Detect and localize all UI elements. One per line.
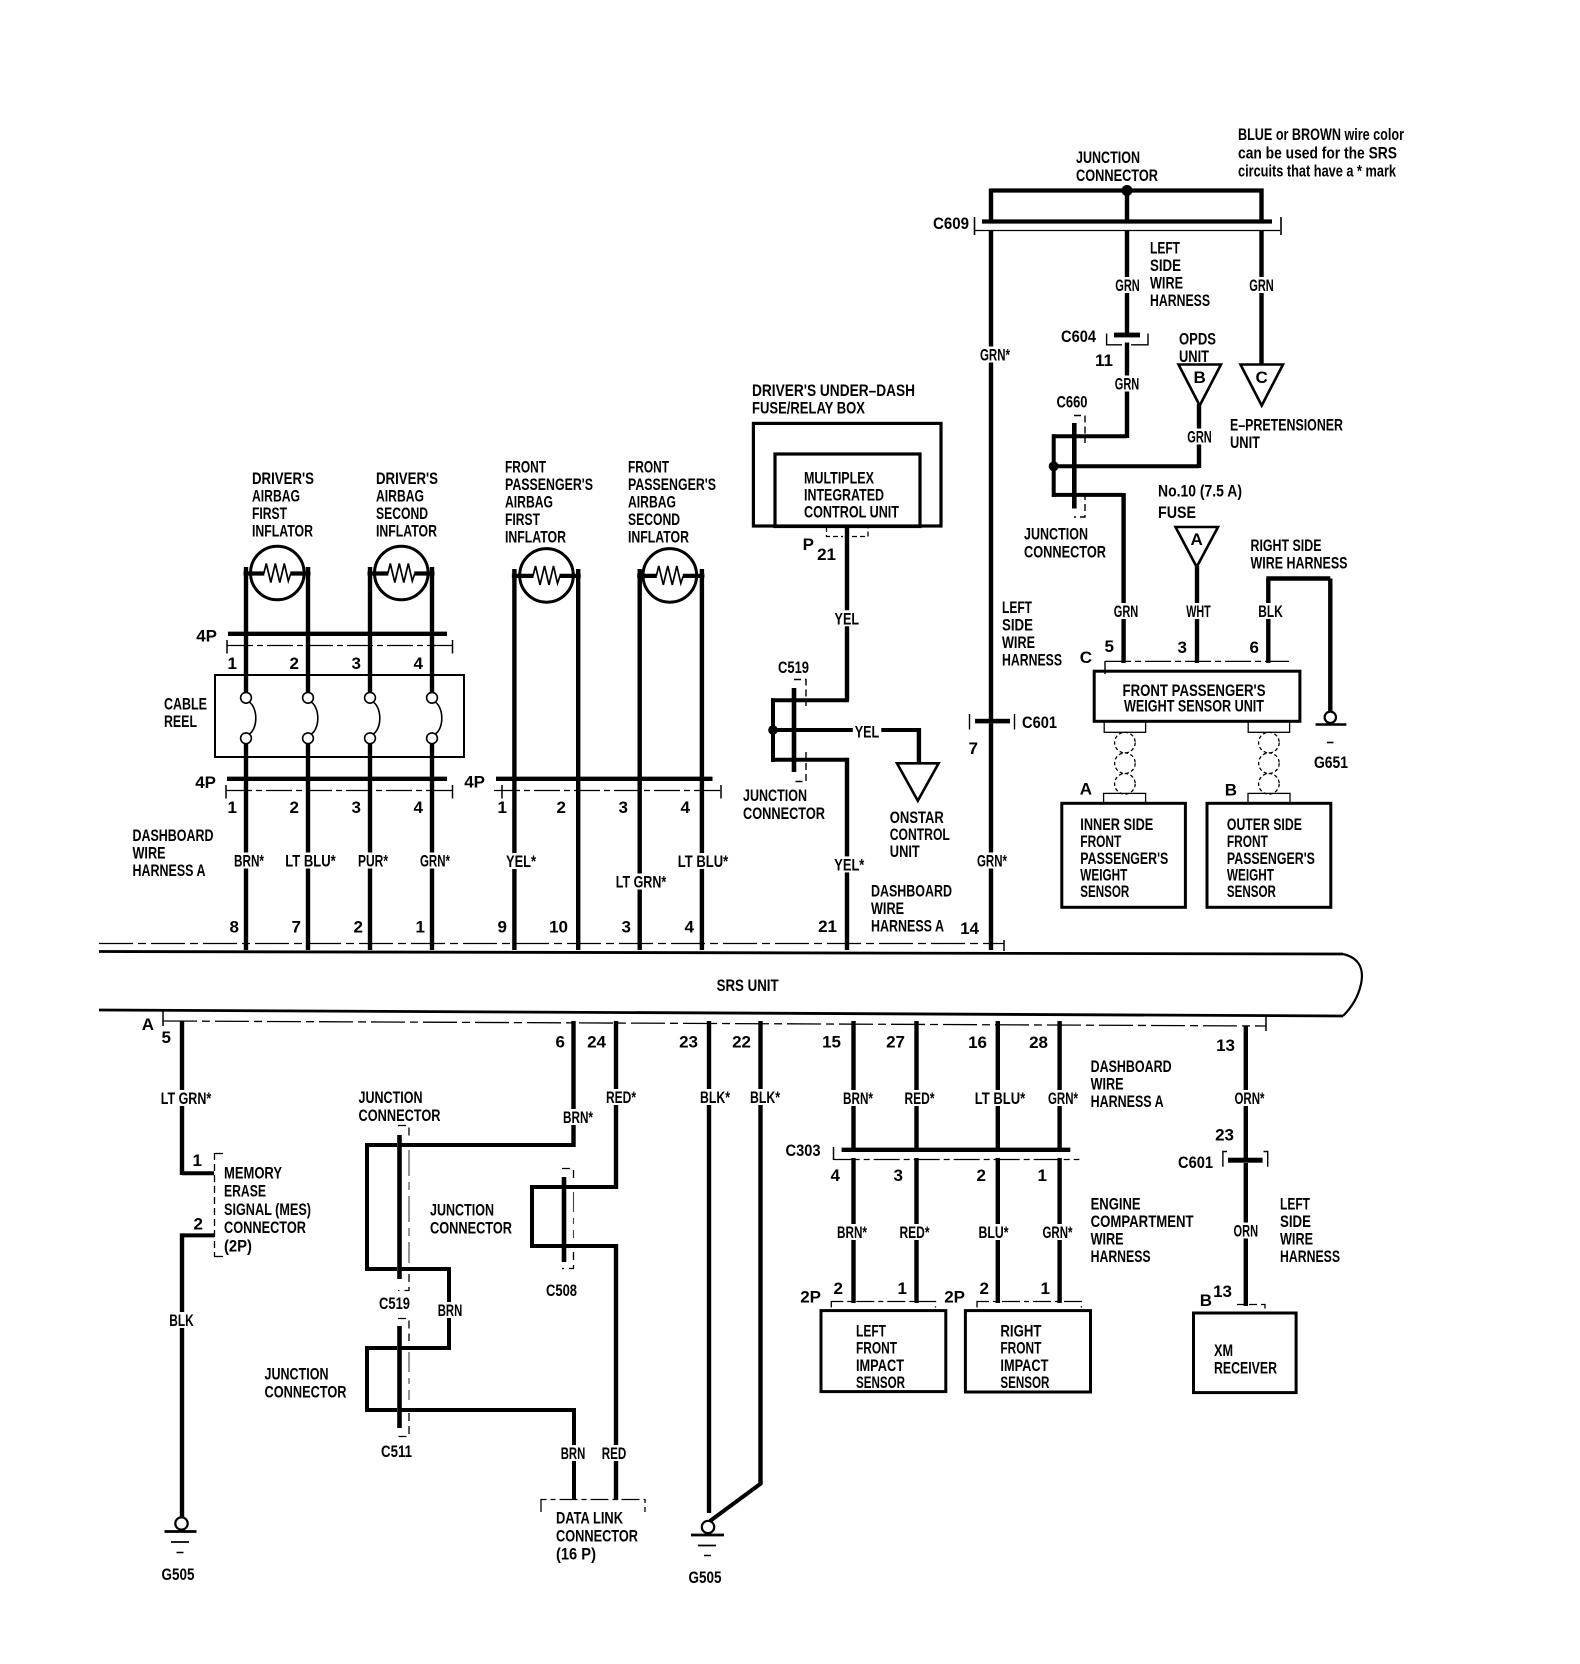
- svg-text:SIDE: SIDE: [1280, 1212, 1311, 1231]
- svg-text:10: 10: [549, 918, 568, 937]
- svg-text:2P: 2P: [800, 1288, 821, 1307]
- svg-text:CONNECTOR: CONNECTOR: [430, 1219, 512, 1238]
- wire LT GRN* from SRS pin 5: [180, 1021, 184, 1175]
- cable reel coil at x=308: [306, 636, 310, 693]
- inflator left lead stub: [512, 574, 534, 578]
- svg-text:P: P: [803, 535, 814, 554]
- wire inflator2 right leg: [430, 567, 434, 636]
- svg-text:CABLE: CABLE: [164, 695, 207, 714]
- svg-text:2: 2: [980, 1279, 989, 1298]
- svg-text:3: 3: [622, 918, 631, 937]
- svg-text:C604: C604: [1061, 327, 1096, 346]
- svg-text:can be used for the SRS: can be used for the SRS: [1238, 144, 1397, 163]
- svg-text:3: 3: [352, 798, 361, 817]
- svg-text:C660: C660: [1057, 393, 1088, 412]
- label YEL*: [832, 856, 866, 872]
- E-pretensioner unit triangle C: [1241, 365, 1284, 406]
- svg-text:24: 24: [587, 1033, 606, 1052]
- svg-text:XM: XM: [1214, 1341, 1233, 1360]
- svg-text:GRN*: GRN*: [1048, 1089, 1078, 1108]
- wire inflator2 left leg: [368, 567, 372, 636]
- wire ORN from C601 to XM receiver: [1244, 1163, 1248, 1306]
- wire BLK* pin 23 to ground: [707, 1021, 711, 1513]
- svg-text:14: 14: [960, 919, 979, 938]
- label ORN: [1232, 1223, 1261, 1239]
- svg-text:16: 16: [968, 1033, 987, 1052]
- wire from MES pin 2: [182, 1233, 214, 1237]
- svg-text:FRONT: FRONT: [505, 458, 546, 477]
- inner sensor top bracket: [1104, 793, 1146, 803]
- svg-text:A: A: [142, 1015, 154, 1034]
- svg-text:RED*: RED*: [905, 1089, 935, 1108]
- svg-text:3: 3: [619, 798, 628, 817]
- inflator left lead stub: [637, 574, 657, 578]
- svg-text:LEFT: LEFT: [1280, 1195, 1310, 1214]
- svg-text:GRN*: GRN*: [980, 346, 1010, 365]
- wire RED* from SRS pin 24 to C508: [614, 1021, 618, 1189]
- svg-text:WIRE: WIRE: [1091, 1075, 1124, 1094]
- svg-text:2: 2: [834, 1279, 843, 1298]
- connector C609 thin line: [975, 230, 1280, 232]
- wire passenger inflator1 right leg (to 4P): [576, 569, 580, 779]
- spring coupling A (3 dashed circles): [1115, 732, 1136, 753]
- wire C519 bottom-right: [792, 758, 847, 762]
- connector 4P (passenger) thin line: [494, 790, 722, 792]
- svg-text:CONNECTOR: CONNECTOR: [743, 804, 825, 823]
- junction connector C511 left bracket: [365, 1346, 369, 1412]
- wire YEL from MICU to junction connector C519: [845, 527, 849, 701]
- wire C660 bottom-right to weight sensor pin 5: [1074, 493, 1124, 497]
- label BLK: [167, 1312, 196, 1328]
- connector 4P (passenger) left tick: [501, 785, 503, 799]
- connector C601 (upper) symbol: [975, 719, 1010, 724]
- SRS unit bottom border line: [99, 1010, 1343, 1016]
- inflator squib circle at x=546.5: [520, 549, 574, 603]
- svg-text:CONNECTOR: CONNECTOR: [1076, 166, 1158, 185]
- inflator resistor zigzag: [533, 566, 560, 585]
- svg-text:HARNESS: HARNESS: [1150, 291, 1210, 310]
- label RED* (pin 27): [903, 1090, 937, 1106]
- wire GRN* from SRS pin 28: [1057, 1021, 1061, 1152]
- label BLK* (pin 22): [748, 1089, 782, 1105]
- label WHT at weight sensor pin 3: [1184, 603, 1213, 619]
- wire C660 top-right to GRN: [1074, 434, 1127, 438]
- svg-text:ERASE: ERASE: [224, 1182, 266, 1201]
- svg-text:8: 8: [230, 918, 239, 937]
- svg-text:1: 1: [498, 798, 507, 817]
- wire corner down to ONSTAR triangle: [917, 728, 921, 764]
- junction connector C519b left bracket: [365, 1143, 369, 1271]
- svg-text:LT BLU*: LT BLU*: [678, 852, 729, 871]
- label RED* (engine side): [898, 1224, 932, 1240]
- svg-text:4: 4: [685, 918, 695, 937]
- wire YEL* from C519 to SRS pin 21: [845, 758, 849, 950]
- svg-text:REEL: REEL: [164, 712, 197, 731]
- svg-text:BRN*: BRN*: [837, 1223, 867, 1242]
- label YEL (to ONSTAR): [853, 724, 882, 740]
- svg-text:2: 2: [290, 798, 299, 817]
- svg-text:3: 3: [894, 1166, 903, 1185]
- wire passenger inflator2 left leg (to 4P): [638, 569, 642, 779]
- svg-text:C601: C601: [1178, 1153, 1213, 1172]
- svg-text:A: A: [1080, 780, 1092, 799]
- SRS unit bottom connector right tick: [1265, 1016, 1267, 1031]
- svg-text:SIDE: SIDE: [1150, 256, 1181, 275]
- wire inflator1 left leg: [244, 567, 248, 636]
- svg-text:23: 23: [1215, 1126, 1234, 1145]
- label GRN (above C604): [1113, 277, 1142, 293]
- wire BLU* from C303 to right impact sensor: [996, 1158, 1000, 1303]
- connector C609 bar: [982, 219, 1272, 223]
- wire RED* from SRS pin 27: [914, 1021, 918, 1152]
- svg-text:5: 5: [1105, 637, 1114, 656]
- wire pin10: [576, 781, 580, 950]
- left front impact sensor box: [821, 1311, 946, 1392]
- junction connector C508 main bar: [562, 1177, 567, 1262]
- wire passenger inflator1 left leg (to 4P): [512, 569, 516, 779]
- SRS unit top connector dashed line: [99, 943, 1004, 945]
- MICU output connector dashes: [827, 527, 844, 537]
- svg-text:AIRBAG: AIRBAG: [376, 487, 424, 506]
- svg-text:JUNCTION: JUNCTION: [743, 786, 807, 805]
- svg-text:1: 1: [193, 1151, 202, 1170]
- svg-text:4P: 4P: [464, 773, 485, 792]
- connector 4P (passenger) bar: [496, 777, 713, 781]
- fuse triangle A: [1176, 527, 1219, 567]
- svg-text:RED*: RED*: [606, 1088, 636, 1107]
- svg-text:BLK: BLK: [1258, 602, 1283, 621]
- wire C519b top-right to BRN* wire: [400, 1143, 574, 1147]
- svg-text:ORN: ORN: [1234, 1222, 1259, 1241]
- junction connector C519b outline dashes: [398, 1126, 409, 1141]
- svg-text:SENSOR: SENSOR: [1000, 1373, 1049, 1392]
- wire C508 bottom-right (RED): [564, 1244, 616, 1248]
- wire GRN* from C601 to SRS pin 14: [989, 724, 993, 951]
- svg-text:UNIT: UNIT: [1230, 433, 1260, 452]
- svg-text:GRN*: GRN*: [420, 852, 450, 871]
- connector 4P (lower) bar: [227, 777, 447, 781]
- svg-text:RECEIVER: RECEIVER: [1214, 1358, 1277, 1377]
- connector C303 thin line: [834, 1159, 1080, 1161]
- svg-text:GRN: GRN: [1187, 428, 1212, 447]
- svg-text:INFLATOR: INFLATOR: [376, 522, 437, 541]
- svg-text:AIRBAG: AIRBAG: [628, 493, 676, 512]
- label GRN (right): [1247, 277, 1276, 293]
- wire BRN* pin8: [244, 781, 248, 950]
- junction connector C508 outline dashes: [562, 1169, 574, 1183]
- svg-text:GRN: GRN: [1114, 602, 1139, 621]
- svg-text:SENSOR: SENSOR: [856, 1373, 905, 1392]
- svg-text:WIRE: WIRE: [1002, 633, 1035, 652]
- svg-text:DASHBOARD: DASHBOARD: [1091, 1057, 1172, 1076]
- svg-text:1: 1: [1038, 1166, 1047, 1185]
- svg-text:27: 27: [886, 1033, 905, 1052]
- svg-text:CONNECTOR: CONNECTOR: [224, 1218, 306, 1237]
- label LT GRN*: [159, 1090, 213, 1106]
- ground G651 symbol: [1325, 712, 1336, 723]
- svg-text:13: 13: [1213, 1282, 1232, 1301]
- connector C609 right tick: [1280, 217, 1282, 235]
- inner side front passenger weight sensor box: [1062, 803, 1186, 907]
- label GRN at weight sensor pin 5: [1112, 603, 1141, 619]
- connector 4P (upper) left tick: [226, 640, 228, 654]
- junction connector C660 left bracket: [1052, 434, 1056, 497]
- wire C660 to OPDS (horizontal): [1054, 464, 1199, 468]
- junction connector C508 left bracket: [530, 1185, 534, 1248]
- wire C519b bottom-right (BRN): [400, 1267, 450, 1271]
- svg-text:SIDE: SIDE: [1002, 616, 1033, 635]
- svg-text:YEL: YEL: [835, 609, 860, 628]
- svg-text:21: 21: [817, 545, 836, 564]
- svg-text:HARNESS A: HARNESS A: [1091, 1092, 1164, 1111]
- svg-text:B: B: [1200, 1291, 1212, 1310]
- svg-text:RIGHT SIDE: RIGHT SIDE: [1251, 536, 1322, 555]
- svg-text:6: 6: [556, 1033, 565, 1052]
- svg-text:A: A: [1191, 530, 1203, 549]
- svg-text:23: 23: [679, 1033, 698, 1052]
- junction connector C519 outline dashes: [794, 680, 806, 707]
- svg-text:BRN: BRN: [438, 1301, 463, 1320]
- label BLK at weight sensor pin 6: [1256, 603, 1285, 619]
- label BRN* (engine side): [835, 1224, 869, 1240]
- inflator squib circle at x=401.3: [375, 546, 429, 600]
- cable reel coil at x=432: [430, 636, 434, 693]
- svg-text:SECOND: SECOND: [376, 504, 428, 523]
- svg-text:No.10 (7.5 A): No.10 (7.5 A): [1158, 482, 1242, 501]
- connector 4P (lower) right tick: [452, 785, 454, 799]
- inflator resistor zigzag: [656, 566, 683, 585]
- svg-text:C609: C609: [933, 214, 969, 233]
- SRS unit bottom connector left tick: [162, 1012, 164, 1027]
- svg-text:15: 15: [822, 1033, 841, 1052]
- svg-text:1: 1: [416, 918, 425, 937]
- svg-text:COMPARTMENT: COMPARTMENT: [1091, 1212, 1194, 1231]
- SRS unit top connector right tick: [1003, 940, 1005, 951]
- memory erase signal connector bracket: [214, 1153, 216, 1257]
- svg-text:1: 1: [228, 654, 237, 673]
- inflator right lead stub: [414, 571, 434, 575]
- svg-text:WIRE: WIRE: [1150, 274, 1183, 293]
- svg-text:B: B: [1225, 781, 1237, 800]
- svg-text:GRN: GRN: [1115, 375, 1140, 394]
- svg-text:C601: C601: [1022, 713, 1057, 732]
- weight sensor unit lower stub B: [1248, 721, 1289, 732]
- inflator squib circle at x=277.3: [250, 546, 304, 600]
- svg-text:RED: RED: [602, 1444, 627, 1463]
- label GRN* upper: [978, 347, 1012, 363]
- junction connector C519 left bracket: [771, 698, 775, 762]
- wire passenger inflator2 right leg (to 4P): [700, 569, 704, 779]
- junction connector C519b main bar: [397, 1135, 402, 1279]
- svg-text:PASSENGER'S: PASSENGER'S: [628, 475, 716, 494]
- svg-text:E–PRETENSIONER: E–PRETENSIONER: [1230, 416, 1343, 435]
- svg-text:4: 4: [681, 798, 691, 817]
- svg-text:YEL*: YEL*: [506, 852, 536, 871]
- connector C303 bar: [842, 1148, 1071, 1152]
- wire LT BLU* from SRS pin 16: [996, 1021, 1000, 1152]
- svg-text:C511: C511: [381, 1442, 412, 1461]
- weight sensor unit lower stub A: [1104, 721, 1145, 732]
- inflator left lead stub: [368, 571, 389, 575]
- svg-text:FRONT: FRONT: [628, 458, 669, 477]
- driver's under-dash fuse/relay box: [753, 423, 941, 526]
- wire stub right x=1261.5: [1259, 189, 1263, 224]
- connector 4P (passenger) right tick: [720, 785, 722, 799]
- svg-text:GRN*: GRN*: [977, 852, 1007, 871]
- svg-text:HARNESS: HARNESS: [1002, 651, 1062, 670]
- svg-text:SECOND: SECOND: [628, 510, 680, 529]
- svg-text:HARNESS A: HARNESS A: [871, 917, 944, 936]
- junction node dot on C519: [768, 725, 778, 735]
- label LT BLU* (pin 16): [973, 1090, 1027, 1106]
- svg-text:4: 4: [414, 798, 424, 817]
- weight sensor unit connector dashed line: [1105, 660, 1289, 662]
- svg-text:C303: C303: [786, 1141, 821, 1160]
- svg-text:ORN*: ORN*: [1235, 1089, 1265, 1108]
- wire BLK from weight sensor pin 6 up and over to G651: [1266, 579, 1270, 664]
- wire GRN* from C303 to right impact sensor: [1057, 1158, 1061, 1303]
- svg-text:UNIT: UNIT: [890, 842, 920, 861]
- wire GRN* pin1: [430, 781, 434, 950]
- svg-text:LT BLU*: LT BLU*: [285, 852, 336, 871]
- inflator right lead stub: [560, 574, 581, 578]
- label RED: [600, 1445, 629, 1461]
- SRS unit top border line: [99, 952, 1343, 955]
- svg-text:WEIGHT SENSOR UNIT: WEIGHT SENSOR UNIT: [1124, 697, 1264, 716]
- svg-text:C508: C508: [546, 1281, 577, 1300]
- svg-text:7: 7: [969, 739, 978, 758]
- svg-text:INFLATOR: INFLATOR: [505, 528, 566, 547]
- svg-text:BLUE or BROWN wire color: BLUE or BROWN wire color: [1238, 125, 1404, 144]
- svg-text:28: 28: [1029, 1033, 1048, 1052]
- wire C511 bottom-right (BRN to data link): [400, 1408, 575, 1412]
- label BRN (between C519 and C511): [436, 1302, 465, 1318]
- svg-text:G651: G651: [1314, 753, 1348, 772]
- svg-text:HARNESS: HARNESS: [1280, 1247, 1340, 1266]
- wire GRN from C609 to E-pretensioner: [1259, 230, 1263, 366]
- svg-text:WIRE HARNESS: WIRE HARNESS: [1251, 554, 1348, 573]
- svg-text:21: 21: [818, 917, 837, 936]
- junction connector C519 main bar: [792, 688, 797, 772]
- svg-text:DASHBOARD: DASHBOARD: [133, 826, 214, 845]
- wire stub left x=991: [989, 189, 993, 224]
- svg-text:LEFT: LEFT: [1002, 598, 1032, 617]
- inflator left lead stub: [244, 571, 265, 575]
- svg-text:DASHBOARD: DASHBOARD: [871, 882, 952, 901]
- svg-text:BRN*: BRN*: [563, 1108, 593, 1127]
- svg-text:WIRE: WIRE: [133, 844, 166, 863]
- wire RED* from C303 to left impact sensor: [914, 1158, 918, 1303]
- wire LT GRN* pin3: [638, 781, 642, 950]
- connector 4P (upper) thin line: [227, 645, 453, 647]
- outer sensor top bracket: [1248, 793, 1290, 803]
- svg-text:BRN*: BRN*: [234, 852, 264, 871]
- wire LT BLU* pin7: [306, 781, 310, 950]
- svg-text:BLU*: BLU*: [979, 1223, 1009, 1242]
- connector C601 (lower) symbol: [1228, 1158, 1263, 1163]
- label GRN (below C604): [1113, 376, 1142, 392]
- svg-text:5: 5: [162, 1028, 171, 1047]
- connector C604 symbol: [1114, 333, 1140, 338]
- svg-text:13: 13: [1216, 1036, 1235, 1055]
- wire C508 top-right to RED* wire: [564, 1185, 616, 1189]
- svg-text:FUSE/RELAY BOX: FUSE/RELAY BOX: [752, 399, 866, 418]
- left impact sensor bracket: [831, 1302, 935, 1308]
- junction connector (top) bus wire: [991, 188, 1264, 192]
- multiplex integrated control unit box: [775, 454, 920, 527]
- label BLU* (engine side): [977, 1224, 1011, 1240]
- svg-text:7: 7: [292, 918, 301, 937]
- svg-text:1: 1: [228, 798, 237, 817]
- svg-text:3: 3: [352, 654, 361, 673]
- right front impact sensor box: [965, 1311, 1090, 1392]
- svg-text:GRN: GRN: [1115, 276, 1140, 295]
- svg-text:SIGNAL (MES): SIGNAL (MES): [224, 1200, 311, 1219]
- svg-text:HARNESS A: HARNESS A: [133, 861, 206, 880]
- svg-text:C519: C519: [379, 1294, 410, 1313]
- svg-text:DATA LINK: DATA LINK: [556, 1509, 624, 1528]
- svg-text:(2P): (2P): [224, 1236, 252, 1255]
- svg-text:HARNESS: HARNESS: [1091, 1247, 1151, 1266]
- OPDS unit triangle B: [1179, 365, 1222, 406]
- svg-text:WIRE: WIRE: [871, 899, 904, 918]
- svg-text:YEL*: YEL*: [834, 856, 864, 875]
- junction connector C660 main bar: [1072, 423, 1077, 509]
- svg-text:BLK*: BLK*: [700, 1088, 730, 1107]
- svg-text:2: 2: [194, 1215, 203, 1234]
- svg-text:JUNCTION: JUNCTION: [1024, 525, 1088, 544]
- svg-text:AIRBAG: AIRBAG: [505, 493, 553, 512]
- wire C511 top-right to BRN wire: [400, 1346, 450, 1350]
- ONSTAR control unit triangle: [897, 763, 939, 800]
- svg-text:GRN: GRN: [1249, 276, 1274, 295]
- junction node dot: [1122, 185, 1133, 196]
- wire PUR* pin2: [368, 781, 372, 950]
- svg-text:GRN*: GRN*: [1043, 1223, 1073, 1242]
- SRS unit right break curve: [1343, 954, 1362, 1016]
- svg-text:4: 4: [414, 654, 424, 673]
- svg-text:22: 22: [732, 1033, 751, 1052]
- connector 4P (upper) bar: [228, 632, 447, 636]
- svg-text:WHT: WHT: [1186, 602, 1211, 621]
- XM receiver bracket: [1237, 1305, 1265, 1314]
- junction connector C511 main bar: [397, 1326, 402, 1428]
- svg-text:C: C: [1256, 368, 1268, 387]
- spring coupling B (3 dashed circles): [1259, 732, 1280, 753]
- label GRN (OPDS wire): [1185, 429, 1214, 445]
- svg-text:INFLATOR: INFLATOR: [252, 522, 313, 541]
- svg-text:DRIVER'S: DRIVER'S: [376, 469, 438, 488]
- svg-text:BLK: BLK: [169, 1311, 194, 1330]
- wire stub mid x=1127: [1125, 189, 1129, 224]
- svg-text:CONNECTOR: CONNECTOR: [359, 1106, 441, 1125]
- svg-text:(16 P): (16 P): [556, 1545, 596, 1564]
- junction node dot on C660: [1049, 461, 1059, 471]
- connector 4P (upper) right tick: [452, 640, 454, 654]
- wire GRN* from C609 to C601: [989, 230, 993, 719]
- svg-text:JUNCTION: JUNCTION: [359, 1088, 423, 1107]
- cable reel coil at x=246: [244, 636, 248, 693]
- svg-text:2: 2: [557, 798, 566, 817]
- svg-text:FIRST: FIRST: [252, 504, 287, 523]
- label BRN* (pin 15): [841, 1090, 875, 1106]
- XM receiver box: [1194, 1313, 1297, 1393]
- inflator right lead stub: [290, 571, 310, 575]
- svg-text:CONNECTOR: CONNECTOR: [265, 1383, 347, 1402]
- junction connector C660 outline dashes: [1074, 416, 1085, 444]
- svg-text:WIRE: WIRE: [1091, 1230, 1124, 1249]
- svg-text:LT GRN*: LT GRN*: [616, 873, 667, 892]
